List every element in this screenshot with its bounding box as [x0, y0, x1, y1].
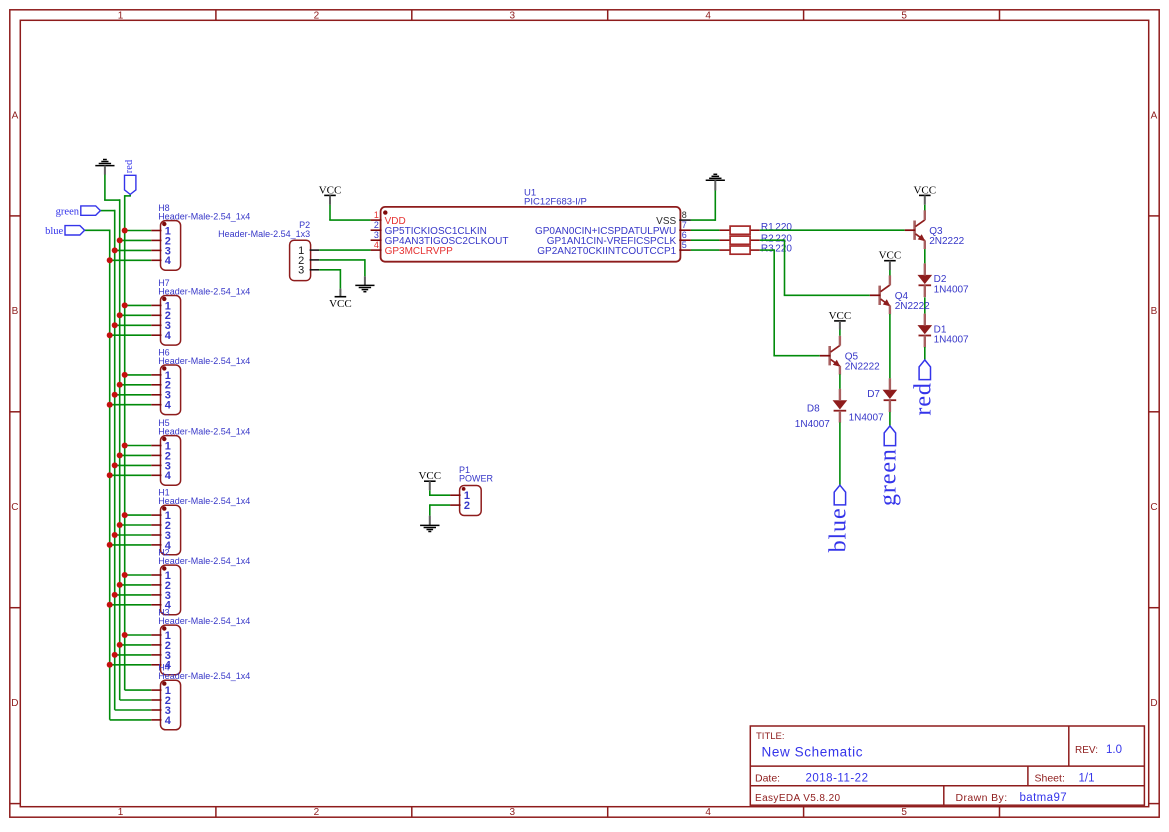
wire D7 to green flag	[889, 412, 891, 426]
wire VCC to Q3 collector	[924, 195, 926, 211]
svg-text:New Schematic: New Schematic	[762, 745, 864, 760]
svg-text:2N2222: 2N2222	[845, 361, 880, 372]
svg-text:C: C	[1150, 502, 1157, 513]
svg-text:C: C	[11, 502, 18, 513]
wire net red vertical bus	[125, 194, 131, 690]
op IC U1 PIC12F683-I/P	[371, 187, 691, 261]
resistor R1 220	[719, 222, 792, 234]
ground (P2 pin2)	[355, 276, 374, 291]
svg-text:VCC: VCC	[829, 310, 852, 322]
svg-text:Drawn By:: Drawn By:	[956, 792, 1008, 804]
svg-text:D: D	[1150, 698, 1157, 709]
svg-text:5: 5	[901, 11, 907, 22]
svg-text:red: red	[124, 159, 135, 173]
connector H6 Header-Male-2.54_1x4	[107, 347, 251, 414]
svg-text:TITLE:: TITLE:	[756, 731, 785, 742]
svg-text:VCC: VCC	[329, 298, 352, 310]
svg-text:3: 3	[374, 230, 379, 240]
svg-text:1/1: 1/1	[1079, 772, 1095, 784]
diode D2 1N4007	[919, 263, 970, 297]
svg-text:6: 6	[682, 230, 687, 240]
transistor Q4 2N2222	[870, 275, 930, 314]
wire R2 to Q4 base	[760, 239, 870, 295]
title block	[750, 726, 1144, 805]
ground (P1 pin2)	[420, 516, 439, 532]
svg-text:4: 4	[165, 255, 172, 267]
svg-text:5: 5	[682, 240, 687, 250]
wire D2 to D1	[924, 297, 926, 313]
wire VCC to Q5 collector	[839, 321, 841, 336]
power flag VCC (U1 pin1)	[319, 184, 342, 205]
svg-text:D8: D8	[807, 403, 820, 414]
svg-text:batma97: batma97	[1020, 792, 1068, 804]
svg-text:1N4007: 1N4007	[934, 284, 969, 295]
svg-text:A: A	[1151, 110, 1158, 121]
net flag green (left)	[56, 206, 101, 217]
wire VCC to U1 pin1	[329, 205, 370, 220]
power flag VCC (Q3)	[913, 184, 936, 196]
net flag red (vertical)	[910, 360, 936, 416]
svg-text:4: 4	[374, 240, 379, 250]
connector P2 Header-Male-2.54_1x3	[218, 220, 319, 280]
connector H4 Header-Male-2.54_1x4	[110, 663, 251, 730]
svg-text:green: green	[56, 206, 80, 217]
connector H5 Header-Male-2.54_1x4	[107, 418, 251, 485]
svg-text:EasyEDA V5.8.20: EasyEDA V5.8.20	[755, 793, 841, 804]
wire P2 pin2 to ground	[319, 259, 365, 276]
net flag green (vertical)	[876, 426, 902, 506]
net flag blue (left)	[45, 226, 84, 237]
connector P1 POWER	[450, 465, 493, 516]
svg-text:blue: blue	[826, 508, 852, 553]
transistor Q5 2N2222	[820, 336, 880, 375]
svg-text:4: 4	[165, 330, 172, 342]
svg-text:GP3MCLRVPP: GP3MCLRVPP	[385, 246, 454, 257]
wire U1 pin5 to R3	[691, 249, 720, 251]
ground (top-left, bars up)	[95, 160, 114, 175]
power flag VCC (Q5)	[829, 310, 852, 322]
svg-text:VCC: VCC	[418, 470, 441, 482]
svg-text:4: 4	[165, 715, 172, 727]
svg-text:D7: D7	[867, 389, 880, 400]
wire U1 pin7 to R1	[691, 229, 720, 231]
svg-text:2: 2	[314, 807, 320, 818]
svg-text:Header-Male-2.54_1x3: Header-Male-2.54_1x3	[218, 229, 310, 239]
wire P2 pin3 to VCC	[319, 269, 340, 289]
wire net gnd vertical bus	[104, 174, 120, 700]
svg-text:1N4007: 1N4007	[849, 413, 884, 424]
svg-text:REV:: REV:	[1075, 745, 1098, 756]
svg-text:2N2222: 2N2222	[895, 301, 930, 312]
diode D8 1N4007	[795, 389, 846, 430]
svg-text:2N2222: 2N2222	[929, 236, 964, 247]
wire U1 pin6 to R2	[691, 239, 720, 241]
wire Q4 emitter to D7	[889, 314, 891, 378]
svg-text:Sheet:: Sheet:	[1035, 772, 1065, 784]
svg-text:1N4007: 1N4007	[795, 419, 830, 430]
connector H3 Header-Male-2.54_1x4	[107, 608, 251, 675]
wire Q3 emitter to D2	[924, 249, 926, 263]
svg-text:1: 1	[374, 210, 379, 220]
wire D8 to blue flag	[839, 422, 841, 485]
svg-text:A: A	[12, 110, 19, 121]
wire P2 pin1 to U1 pin4	[319, 249, 370, 251]
wire net green vertical bus	[100, 210, 114, 710]
svg-text:4: 4	[165, 470, 172, 482]
net flag blue (vertical)	[826, 485, 852, 552]
svg-text:2: 2	[464, 500, 470, 512]
diode D1 1N4007	[919, 314, 970, 348]
svg-text:VCC: VCC	[319, 184, 342, 196]
connector H8 Header-Male-2.54_1x4	[107, 203, 251, 270]
svg-text:R1: R1	[761, 222, 774, 233]
svg-text:4: 4	[705, 807, 711, 818]
power flag VCC (P2 pin3, below)	[329, 289, 352, 310]
svg-text:Date:: Date:	[755, 772, 780, 784]
connector H2 Header-Male-2.54_1x4	[107, 548, 251, 615]
wire D1 to red flag	[924, 347, 926, 360]
wire Q5 emitter to D8	[839, 374, 841, 389]
power flag VCC (Q4)	[879, 250, 902, 262]
net flag red (top-left)	[124, 159, 136, 194]
wire U1 pin8 to ground	[691, 191, 715, 221]
wire VCC to P1 pin1	[429, 490, 450, 495]
wire P1 pin2 to ground	[430, 504, 450, 515]
svg-text:2018-11-22: 2018-11-22	[806, 772, 869, 784]
transistor Q3 2N2222	[905, 210, 965, 249]
wire VCC to Q4 collector	[889, 261, 891, 276]
wire net blue vertical bus	[85, 230, 110, 720]
svg-text:GP2AN2T0CKIINTCOUTCCP1: GP2AN2T0CKIINTCOUTCCP1	[537, 246, 676, 257]
svg-text:1N4007: 1N4007	[934, 335, 969, 346]
connector H1 Header-Male-2.54_1x4	[107, 488, 251, 555]
svg-text:2: 2	[374, 220, 379, 230]
svg-text:5: 5	[901, 807, 907, 818]
svg-text:D: D	[11, 698, 18, 709]
svg-text:220: 220	[775, 222, 792, 233]
svg-text:1: 1	[118, 11, 124, 22]
svg-text:VCC: VCC	[913, 184, 936, 196]
svg-text:red: red	[910, 382, 936, 415]
svg-text:2: 2	[314, 11, 320, 22]
svg-text:POWER: POWER	[459, 474, 494, 484]
resistor R3 220	[719, 244, 792, 255]
diode D7 1N4007	[849, 378, 897, 423]
svg-text:7: 7	[682, 220, 687, 230]
power flag VCC (P1 pin1)	[418, 470, 441, 490]
svg-text:1.0: 1.0	[1106, 744, 1122, 756]
svg-text:4: 4	[705, 11, 711, 22]
svg-text:B: B	[1151, 306, 1158, 317]
svg-text:8: 8	[682, 210, 687, 220]
ground (top-right, bars up)	[706, 174, 725, 190]
svg-text:3: 3	[510, 807, 516, 818]
svg-text:B: B	[12, 306, 19, 317]
svg-text:1: 1	[118, 807, 124, 818]
svg-text:blue: blue	[45, 226, 63, 237]
svg-text:4: 4	[165, 400, 172, 412]
resistor R2 220	[719, 233, 792, 244]
svg-text:green: green	[876, 448, 902, 506]
wire R3 to Q5 base	[760, 249, 820, 355]
svg-text:VCC: VCC	[879, 250, 902, 262]
wire R1 to Q3 base	[760, 229, 905, 231]
svg-text:3: 3	[510, 11, 516, 22]
svg-text:3: 3	[298, 265, 304, 277]
svg-text:R3: R3	[761, 244, 774, 255]
connector H7 Header-Male-2.54_1x4	[107, 278, 251, 345]
